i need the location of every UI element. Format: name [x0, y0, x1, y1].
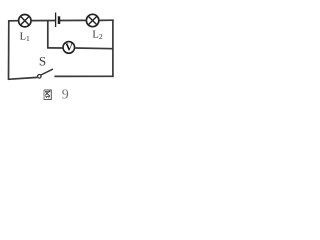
caption glyph 图 [44, 90, 51, 100]
wire voltmeter branch vertical [47, 21, 49, 48]
svg-text:V: V [65, 42, 73, 54]
svg-text:9: 9 [62, 88, 69, 103]
battery cell [56, 13, 59, 28]
wire L1 to battery [32, 20, 55, 22]
wire right vertical [112, 20, 114, 78]
wire top-left to L1 [8, 20, 18, 22]
svg-text:L1: L1 [20, 32, 30, 44]
wire bottom left segment [8, 77, 37, 79]
wire voltmeter branch left horizontal [47, 47, 62, 49]
switch S pivot [38, 75, 42, 79]
lamp L1 [19, 15, 31, 27]
lamp L2 [86, 14, 98, 26]
voltmeter U1 [63, 42, 75, 54]
svg-text:S: S [39, 53, 46, 68]
wire voltmeter branch right horizontal [75, 47, 113, 50]
wire L2 to top-right corner [100, 19, 114, 21]
wire battery to L2 [60, 19, 86, 21]
switch S blade [41, 69, 53, 75]
wire left vertical [8, 20, 10, 80]
svg-text:L2: L2 [92, 30, 102, 42]
wire bottom right segment [54, 75, 113, 77]
